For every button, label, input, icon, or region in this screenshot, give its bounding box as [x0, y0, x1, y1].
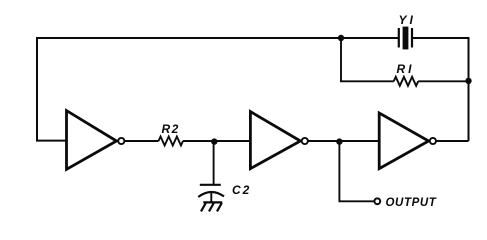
inverter U3 output bubble [430, 138, 436, 144]
capacitor C2 curved plate [198, 192, 224, 197]
svg-text:OUTPUT: OUTPUT [386, 197, 437, 209]
wire: right vertical [468, 38, 470, 141]
wire: C2 to ground [210, 192, 212, 202]
node: top-left crystal junction [338, 35, 344, 41]
wire: tap down to output [338, 142, 340, 202]
resistor R2 [159, 137, 183, 146]
inverter U1 output bubble [118, 138, 124, 144]
wire: R2 to U2 input [183, 140, 250, 142]
op-amp/inverter U2 triangle [250, 112, 300, 169]
wire: R1 row right segment [418, 80, 469, 82]
svg-text:RI: RI [397, 62, 415, 76]
wire: drop to C2 [213, 142, 215, 185]
svg-text:YI: YI [399, 13, 416, 27]
svg-text:R2: R2 [162, 122, 180, 136]
crystal Y1 left lead already in top wire; left plate [398, 28, 400, 48]
ground [201, 202, 222, 211]
wire: U2 output to U3 input [308, 140, 379, 142]
wire: top feedback wire left segment [37, 37, 399, 39]
op-amp/inverter U3 triangle [379, 113, 428, 169]
wire: left vertical drop [36, 37, 38, 141]
wire: to output terminal [339, 200, 375, 202]
output terminal circle [374, 198, 380, 204]
wire: drop from top junction to R1 row [340, 38, 342, 81]
resistor R1 [394, 77, 418, 86]
op-amp/inverter U1 triangle [67, 111, 117, 170]
capacitor C2 top plate [200, 184, 221, 186]
node: R1 right junction [465, 78, 471, 84]
wire: U3 output to right vertical [436, 140, 468, 142]
wire: input to first inverter [36, 140, 66, 142]
crystal Y1 body [403, 27, 409, 50]
svg-text:C2: C2 [232, 183, 251, 197]
wire: top right segment from crystal [412, 37, 470, 39]
wire: U1 output to R2 [125, 140, 159, 142]
inverter U2 output bubble [302, 138, 308, 144]
wire: R1 row left segment [340, 80, 394, 82]
crystal Y1 right plate [411, 28, 413, 48]
node: output tap junction [336, 138, 342, 144]
node: junction of R2/C2 [211, 138, 217, 144]
